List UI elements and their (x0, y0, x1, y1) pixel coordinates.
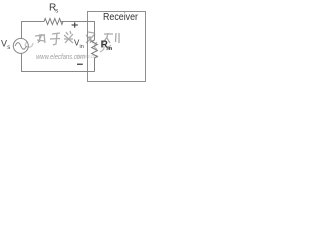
svg-text:V: V (1, 39, 7, 49)
svg-text:in: in (107, 46, 113, 52)
svg-text:Receiver: Receiver (103, 11, 138, 23)
wire: Vs top to Rs left (22, 22, 45, 39)
resistor Rin (92, 40, 98, 72)
label Rs (49, 3, 58, 15)
voltage source Vs (13, 38, 28, 53)
watermark (25, 31, 119, 52)
svg-text:s: s (7, 45, 10, 51)
label Vs (1, 39, 10, 51)
svg-text:s: s (55, 9, 58, 15)
minus polarity mark (77, 64, 83, 65)
wire: Rs right to receiver input node (60, 22, 95, 41)
svg-text:in: in (80, 44, 84, 50)
plus polarity mark (72, 22, 78, 27)
resistor Rs (44, 19, 63, 25)
label Rin (101, 39, 113, 51)
wire: Vs bottom to return rail (22, 53, 95, 71)
receiver box (88, 12, 146, 82)
label Vin (74, 39, 84, 51)
